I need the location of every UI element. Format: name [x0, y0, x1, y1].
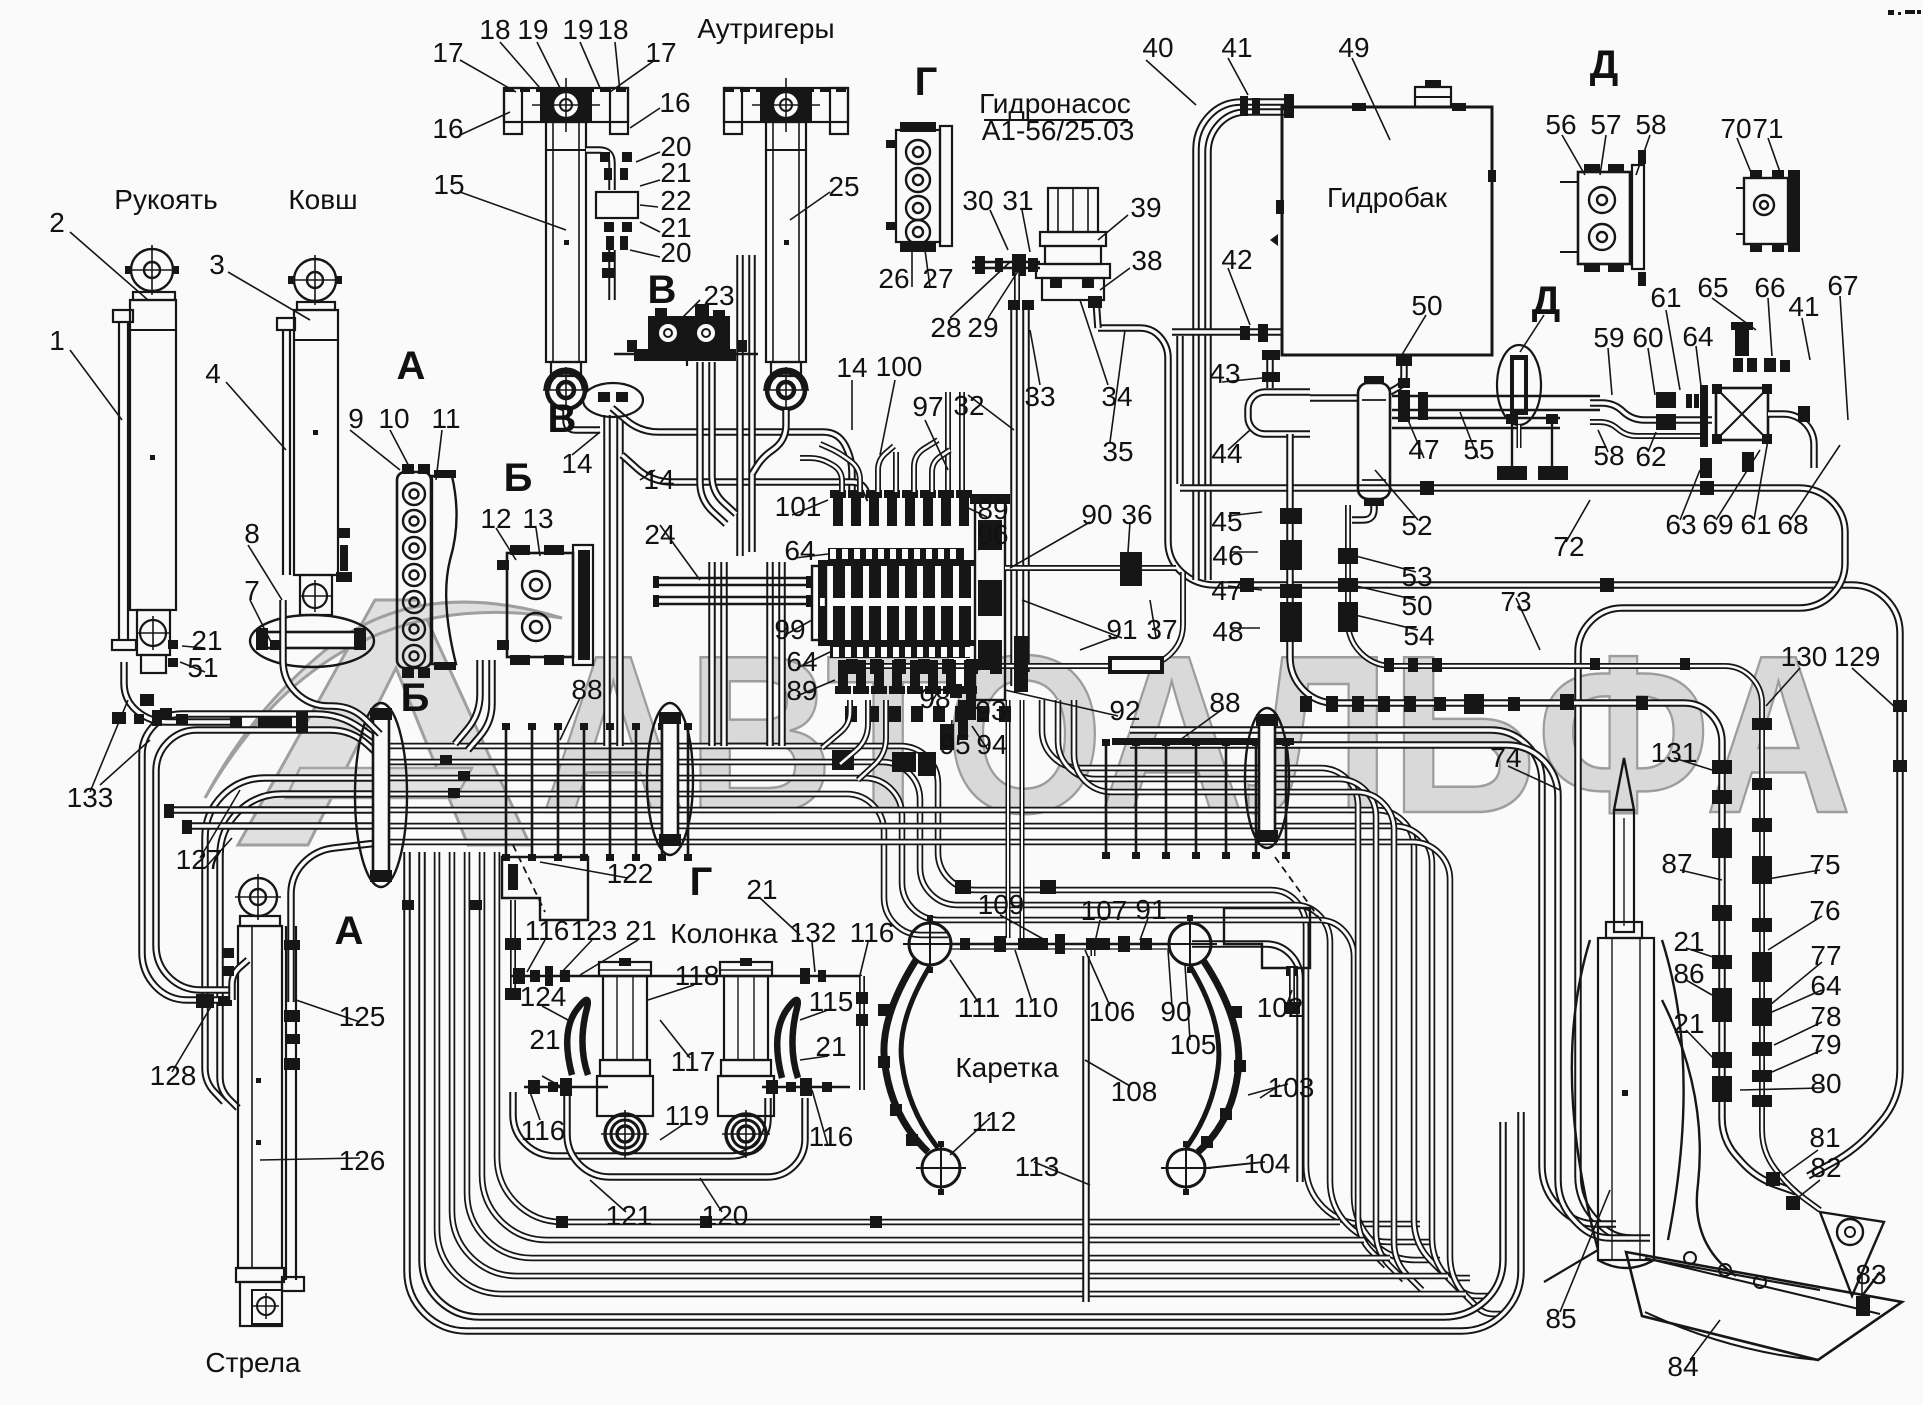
svg-text:32: 32	[953, 390, 984, 421]
svg-text:108: 108	[1111, 1076, 1158, 1107]
svg-text:133: 133	[67, 782, 114, 813]
svg-text:63: 63	[1665, 509, 1696, 540]
svg-text:18: 18	[479, 14, 510, 45]
svg-text:93: 93	[975, 695, 1006, 726]
svg-text:15: 15	[433, 169, 464, 200]
svg-text:80: 80	[1810, 1068, 1841, 1099]
svg-text:23: 23	[703, 280, 734, 311]
svg-text:66: 66	[1754, 272, 1785, 303]
svg-text:В: В	[648, 268, 677, 312]
svg-text:132: 132	[790, 917, 837, 948]
svg-text:29: 29	[967, 312, 998, 343]
svg-text:21: 21	[1673, 1008, 1704, 1039]
svg-text:35: 35	[1102, 436, 1133, 467]
svg-text:21: 21	[660, 157, 691, 188]
svg-text:41: 41	[1788, 291, 1819, 322]
svg-text:8: 8	[244, 518, 260, 549]
svg-text:47: 47	[1211, 575, 1242, 606]
svg-text:62: 62	[1635, 441, 1666, 472]
svg-text:79: 79	[1810, 1029, 1841, 1060]
svg-text:102: 102	[1257, 992, 1304, 1023]
svg-text:109: 109	[978, 889, 1025, 920]
svg-text:96: 96	[977, 519, 1008, 550]
svg-text:4: 4	[205, 358, 221, 389]
svg-text:128: 128	[150, 1060, 197, 1091]
svg-text:3: 3	[209, 249, 225, 280]
svg-text:27: 27	[922, 263, 953, 294]
svg-text:46: 46	[1212, 540, 1243, 571]
svg-text:69: 69	[1702, 509, 1733, 540]
svg-text:64: 64	[1810, 970, 1841, 1001]
svg-text:70: 70	[1720, 113, 1751, 144]
svg-text:98: 98	[919, 683, 950, 714]
svg-text:125: 125	[339, 1001, 386, 1032]
svg-text:64: 64	[1682, 321, 1713, 352]
svg-text:41: 41	[1221, 32, 1252, 63]
svg-text:28: 28	[930, 312, 961, 343]
svg-text:126: 126	[339, 1145, 386, 1176]
svg-text:9: 9	[348, 403, 364, 434]
svg-text:73: 73	[1500, 586, 1531, 617]
svg-text:Гидробак: Гидробак	[1327, 182, 1448, 213]
svg-text:131: 131	[1651, 737, 1698, 768]
svg-text:Г: Г	[915, 60, 938, 104]
svg-text:1: 1	[49, 325, 65, 356]
svg-text:40: 40	[1142, 32, 1173, 63]
svg-text:30: 30	[962, 185, 993, 216]
svg-text:84: 84	[1667, 1351, 1698, 1382]
svg-text:116: 116	[850, 917, 895, 948]
svg-text:65: 65	[1697, 272, 1728, 303]
svg-text:97: 97	[912, 391, 943, 422]
svg-text:14: 14	[643, 464, 674, 495]
svg-text:76: 76	[1809, 895, 1840, 926]
svg-text:50: 50	[1411, 290, 1442, 321]
svg-text:67: 67	[1827, 270, 1858, 301]
svg-text:21: 21	[529, 1024, 560, 1055]
svg-text:Б: Б	[401, 676, 430, 720]
svg-text:Стрела: Стрела	[205, 1347, 301, 1378]
svg-text:129: 129	[1834, 641, 1881, 672]
svg-text:52: 52	[1401, 510, 1432, 541]
svg-text:88: 88	[1209, 687, 1240, 718]
svg-text:118: 118	[675, 960, 720, 991]
svg-text:120: 120	[702, 1200, 749, 1231]
svg-text:31: 31	[1002, 185, 1033, 216]
svg-text:16: 16	[659, 87, 690, 118]
svg-text:104: 104	[1244, 1148, 1291, 1179]
svg-text:Ковш: Ковш	[288, 184, 357, 215]
svg-text:45: 45	[1211, 506, 1242, 537]
svg-text:122: 122	[607, 858, 654, 889]
svg-text:64: 64	[786, 646, 817, 677]
svg-text:91: 91	[1106, 614, 1137, 645]
svg-text:26: 26	[878, 263, 909, 294]
svg-text:86: 86	[1673, 958, 1704, 989]
svg-text:68: 68	[1777, 509, 1808, 540]
svg-text:В: В	[548, 397, 577, 441]
svg-text:106: 106	[1089, 996, 1136, 1027]
svg-text:55: 55	[1463, 434, 1494, 465]
svg-text:83: 83	[1855, 1259, 1886, 1290]
svg-text:13: 13	[522, 503, 553, 534]
svg-text:51: 51	[187, 652, 218, 683]
svg-text:90: 90	[1081, 499, 1112, 530]
svg-text:34: 34	[1101, 381, 1132, 412]
svg-text:82: 82	[1810, 1152, 1841, 1183]
svg-text:61: 61	[1650, 282, 1681, 313]
svg-text:19: 19	[562, 14, 593, 45]
svg-text:95: 95	[939, 729, 970, 760]
svg-text:17: 17	[432, 37, 463, 68]
svg-text:Аутригеры: Аутригеры	[697, 13, 834, 44]
svg-text:Г: Г	[690, 860, 713, 904]
svg-text:89: 89	[786, 675, 817, 706]
svg-text:21: 21	[625, 915, 656, 946]
svg-text:100: 100	[876, 351, 923, 382]
svg-text:61: 61	[1740, 509, 1771, 540]
svg-text:123: 123	[571, 915, 618, 946]
svg-text:75: 75	[1809, 849, 1840, 880]
svg-text:59: 59	[1593, 322, 1624, 353]
svg-text:54: 54	[1403, 620, 1434, 651]
svg-text:14: 14	[836, 352, 867, 383]
svg-text:25: 25	[828, 171, 859, 202]
svg-text:92: 92	[1109, 695, 1140, 726]
svg-text:107: 107	[1081, 895, 1128, 926]
svg-text:111: 111	[958, 992, 1001, 1023]
svg-text:130: 130	[1781, 641, 1828, 672]
svg-text:21: 21	[1673, 926, 1704, 957]
svg-text:110: 110	[1014, 992, 1059, 1023]
svg-text:99: 99	[774, 614, 805, 645]
svg-text:48: 48	[1212, 616, 1243, 647]
svg-text:10: 10	[378, 403, 409, 434]
svg-text:21: 21	[746, 874, 777, 905]
svg-text:17: 17	[645, 37, 676, 68]
svg-text:91: 91	[1135, 894, 1166, 925]
svg-text:87: 87	[1661, 848, 1692, 879]
svg-text:105: 105	[1170, 1029, 1217, 1060]
svg-text:Д: Д	[1590, 43, 1619, 87]
svg-text:117: 117	[671, 1046, 716, 1077]
svg-text:44: 44	[1211, 438, 1242, 469]
svg-text:33: 33	[1024, 381, 1055, 412]
svg-text:112: 112	[972, 1106, 1017, 1137]
svg-text:64: 64	[784, 535, 815, 566]
svg-text:Рукоять: Рукоять	[114, 184, 217, 215]
svg-text:115: 115	[809, 986, 854, 1017]
svg-text:Колонка: Колонка	[670, 918, 778, 949]
svg-text:11: 11	[431, 403, 460, 434]
svg-text:103: 103	[1268, 1072, 1315, 1103]
svg-text:37: 37	[1146, 614, 1177, 645]
svg-text:78: 78	[1810, 1001, 1841, 1032]
svg-text:77: 77	[1810, 940, 1841, 971]
svg-text:72: 72	[1553, 531, 1584, 562]
svg-text:24: 24	[644, 519, 675, 550]
svg-text:18: 18	[597, 14, 628, 45]
svg-text:94: 94	[976, 729, 1007, 760]
svg-text:49: 49	[1338, 32, 1369, 63]
svg-text:85: 85	[1545, 1303, 1576, 1334]
svg-text:43: 43	[1209, 358, 1240, 389]
svg-text:119: 119	[665, 1100, 710, 1131]
svg-text:116: 116	[809, 1121, 854, 1152]
svg-text:74: 74	[1490, 742, 1521, 773]
svg-text:36: 36	[1121, 499, 1152, 530]
svg-text:58: 58	[1635, 109, 1666, 140]
svg-text:124: 124	[520, 981, 567, 1012]
svg-text:7: 7	[244, 575, 260, 606]
svg-text:14: 14	[561, 448, 592, 479]
svg-text:Б: Б	[504, 456, 533, 500]
svg-text:А: А	[397, 344, 426, 388]
svg-text:А: А	[335, 909, 364, 953]
svg-text:57: 57	[1590, 109, 1621, 140]
svg-text:116: 116	[521, 1115, 566, 1146]
svg-text:127: 127	[176, 844, 223, 875]
svg-text:58: 58	[1593, 440, 1624, 471]
svg-text:2: 2	[49, 207, 65, 238]
svg-text:Каретка: Каретка	[955, 1052, 1059, 1083]
svg-text:90: 90	[1160, 996, 1191, 1027]
svg-text:56: 56	[1545, 109, 1576, 140]
svg-text:Д: Д	[1532, 279, 1561, 323]
svg-text:42: 42	[1221, 244, 1252, 275]
svg-text:47: 47	[1408, 434, 1439, 465]
svg-text:21: 21	[815, 1031, 846, 1062]
svg-text:88: 88	[571, 674, 602, 705]
svg-text:116: 116	[525, 915, 570, 946]
svg-text:113: 113	[1015, 1151, 1060, 1182]
svg-text:38: 38	[1131, 245, 1162, 276]
svg-text:12: 12	[480, 503, 511, 534]
svg-text:20: 20	[660, 237, 691, 268]
svg-text:19: 19	[517, 14, 548, 45]
svg-text:81: 81	[1809, 1122, 1840, 1153]
svg-text:39: 39	[1130, 192, 1161, 223]
svg-text:121: 121	[606, 1200, 653, 1231]
svg-text:50: 50	[1401, 590, 1432, 621]
svg-text:16: 16	[432, 113, 463, 144]
svg-text:71: 71	[1752, 113, 1783, 144]
svg-text:53: 53	[1401, 561, 1432, 592]
svg-text:60: 60	[1632, 322, 1663, 353]
svg-text:101: 101	[775, 491, 822, 522]
